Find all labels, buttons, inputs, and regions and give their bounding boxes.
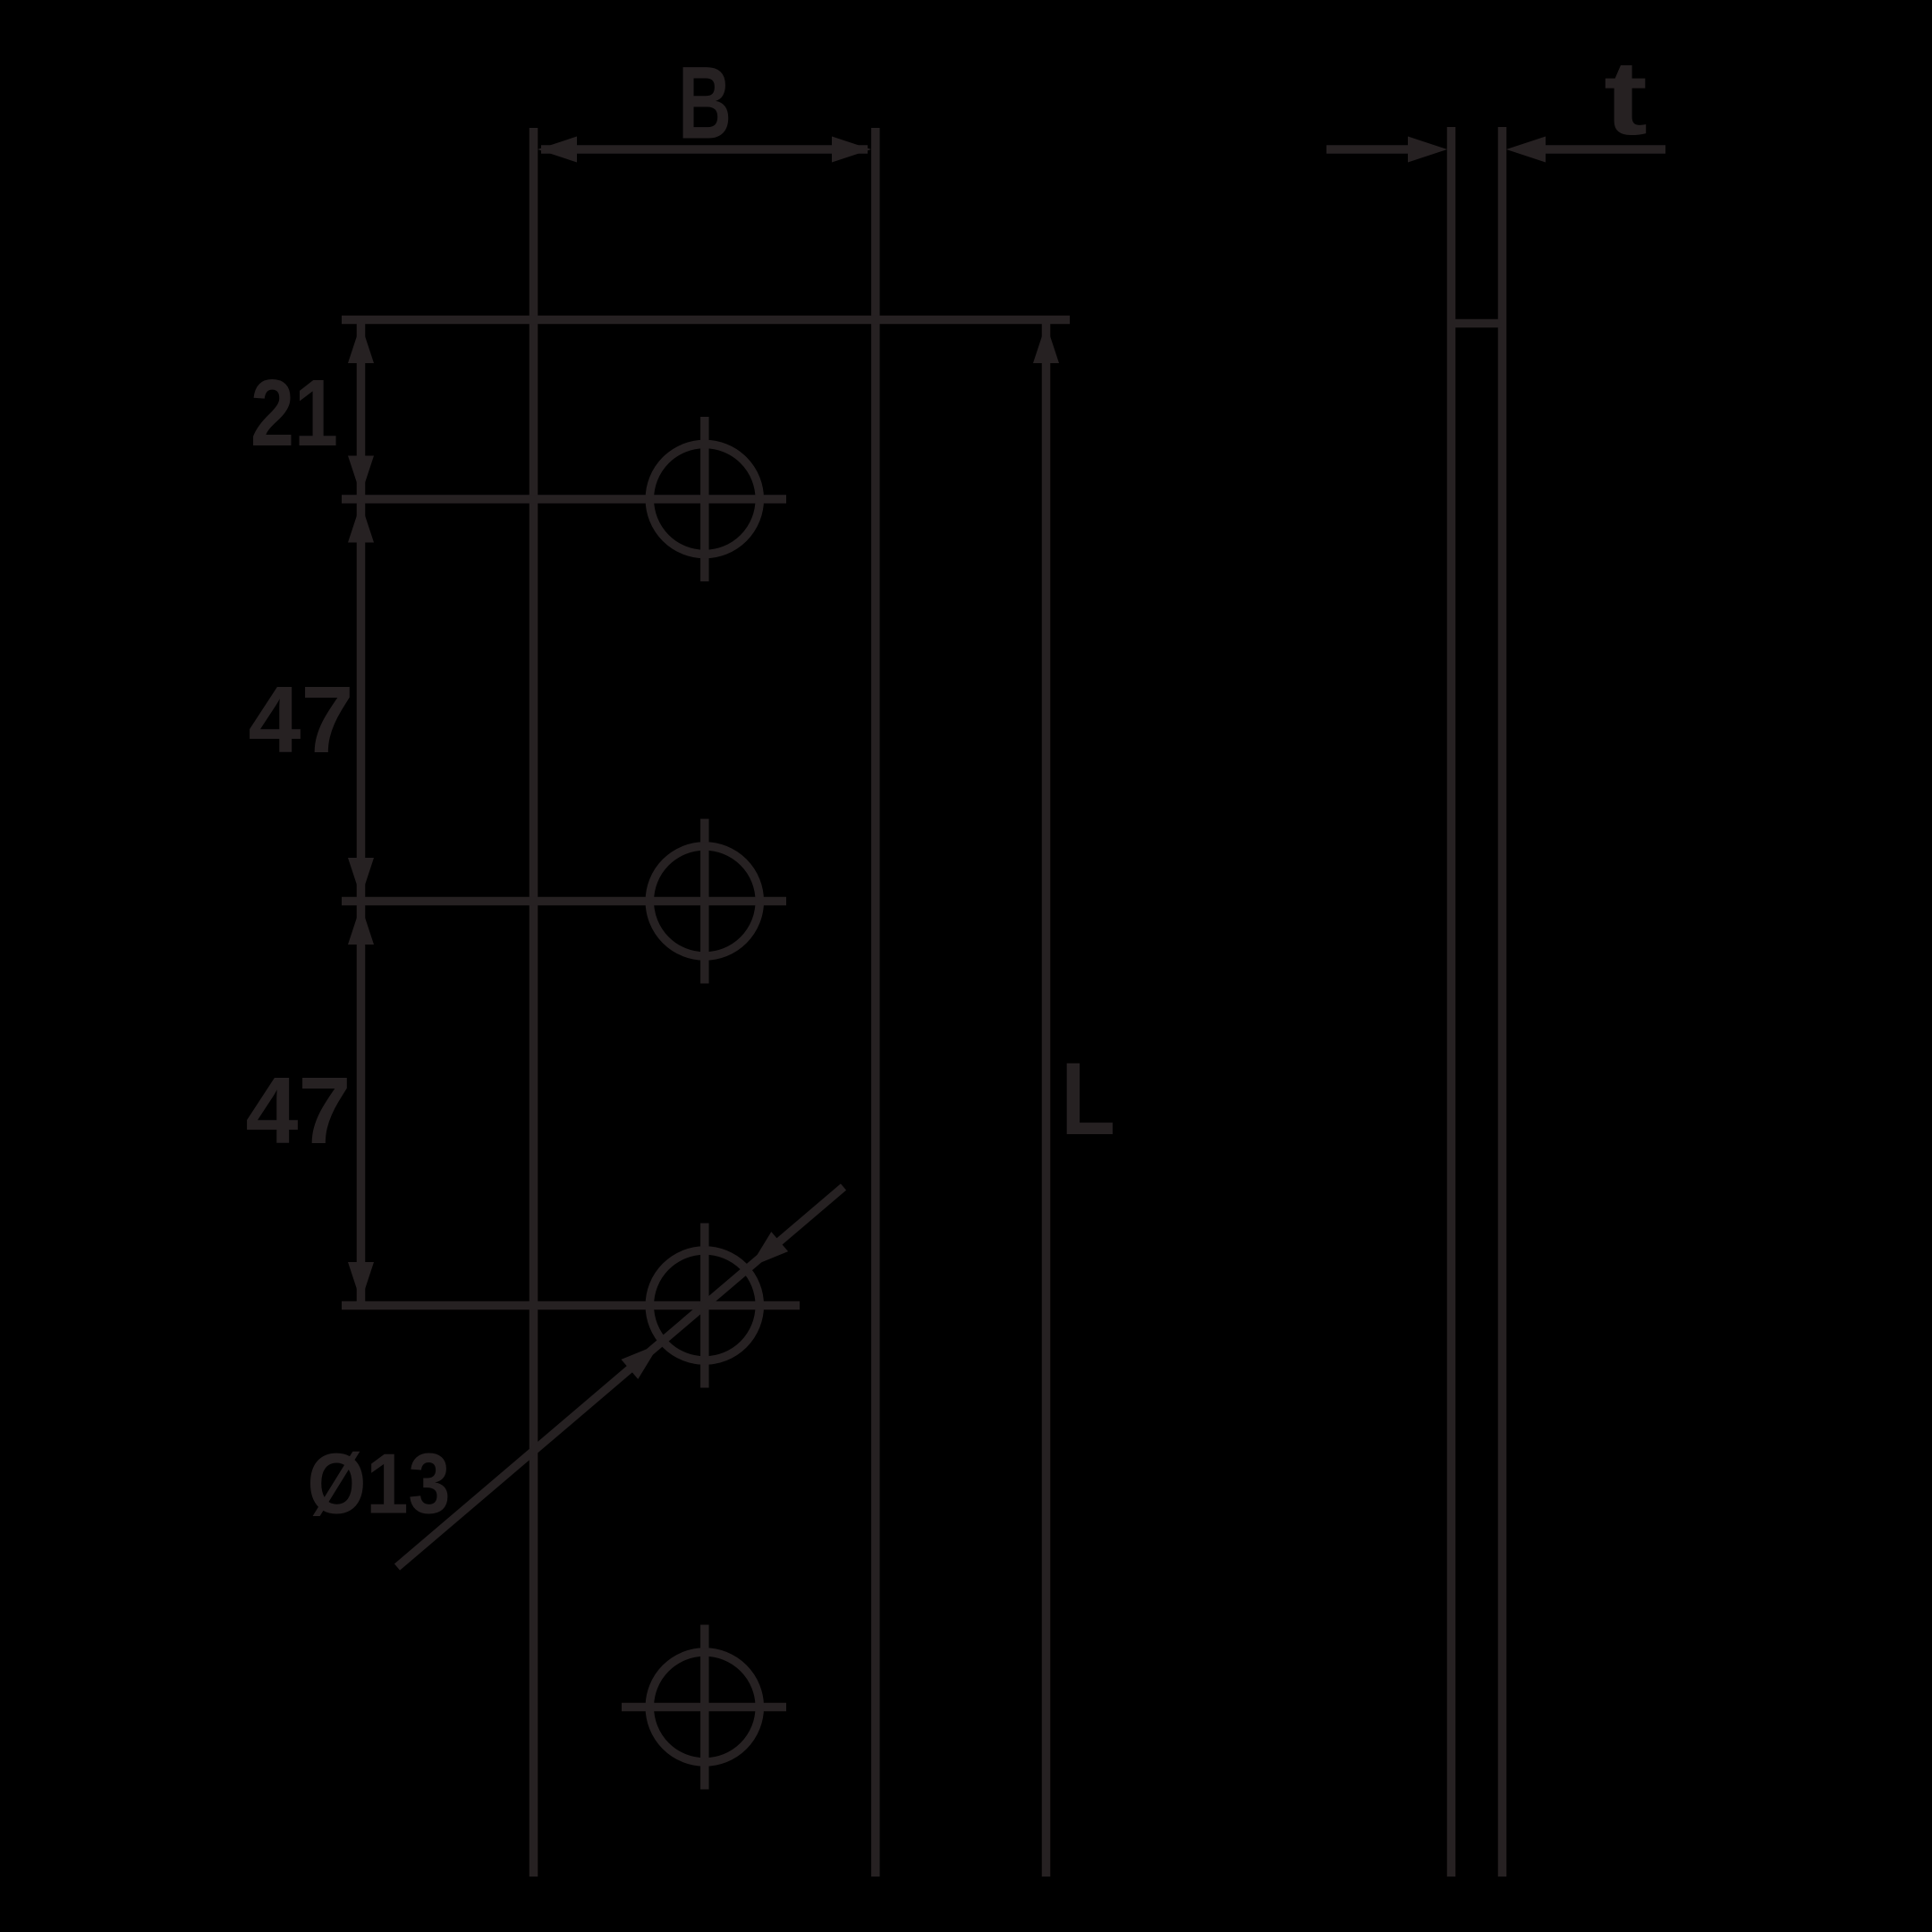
svg-text:B: B [678, 47, 732, 161]
arrow 21 top (up) [348, 324, 374, 363]
hole 2 centerline vertical [700, 819, 709, 984]
hole 1 centerline horizontal [342, 495, 786, 504]
svg-text:47: 47 [249, 667, 354, 773]
side view left edge [1447, 127, 1456, 1877]
hole 4 centerline vertical [700, 1625, 709, 1790]
arrow B right [832, 137, 871, 163]
side view top edge [1452, 319, 1503, 328]
arrow 47b top (up) [348, 905, 374, 945]
hole 2 circle [649, 846, 759, 956]
hole 4 centerline horizontal [622, 1703, 786, 1712]
hole 1 centerline vertical [700, 417, 709, 581]
arrow L top (up) [1033, 324, 1059, 363]
arrow B left [538, 137, 577, 163]
arrow 21 bottom (down) [348, 456, 374, 496]
svg-text:47: 47 [246, 1058, 352, 1164]
arrow 47a top (up) [348, 504, 374, 543]
svg-text:21: 21 [250, 360, 338, 466]
svg-text:Ø13: Ø13 [308, 1436, 451, 1532]
svg-text:L: L [1061, 1042, 1115, 1157]
arrow 47b bottom (down) [348, 1262, 374, 1301]
hole 2 centerline horizontal [342, 897, 786, 906]
hole 3 centerline vertical [700, 1224, 709, 1388]
arrow t left segment (points right) [1408, 137, 1447, 163]
hole 4 circle [649, 1652, 759, 1762]
leader line for Ø13 [397, 1187, 843, 1567]
plate left edge (front view) [530, 128, 538, 1877]
leader arrowhead upper-right (points down-left at circle) [750, 1232, 788, 1267]
leader arrowhead lower-left (points up-right at circle) [622, 1343, 660, 1379]
arrow t right segment (points left) [1506, 137, 1546, 163]
dimension line L [1042, 324, 1051, 1877]
hole 3 circle [649, 1250, 759, 1360]
plate right edge (front view) [871, 128, 880, 1877]
svg-text:t: t [1604, 39, 1648, 157]
t dimension line right segment [1521, 145, 1665, 154]
hole 1 circle [649, 445, 759, 555]
side view right edge [1498, 127, 1507, 1877]
hole 3 centerline horizontal [342, 1301, 800, 1310]
plate top edge (front view) [342, 316, 1070, 325]
arrow 47a bottom (down) [348, 858, 374, 897]
t dimension line left segment [1326, 145, 1431, 154]
vertical dimension line for 21 / 47 / 47 [357, 320, 366, 1306]
dimension line B [541, 145, 868, 154]
